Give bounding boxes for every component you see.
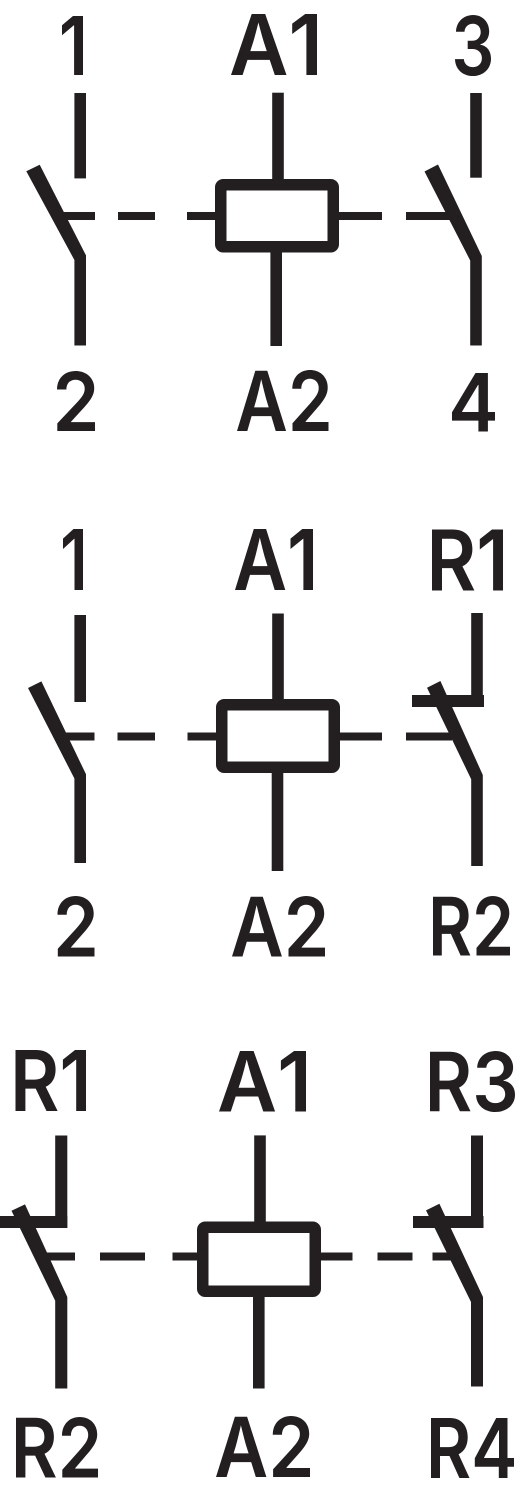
wire - contact R1-R2 actuator tick (diagram 3)	[42, 1253, 75, 1261]
label R2 (pin R2, diagram 2)	[433, 896, 510, 956]
wire - pin 3 top lead	[470, 93, 482, 178]
wire - dash segment 1 (diagram 1)	[118, 212, 155, 220]
label R1 (pin R1, diagram 2)	[432, 530, 503, 591]
wire - dash segment 3 (diagram 2)	[339, 733, 382, 741]
label 2 (pin 2, diagram 2)	[58, 896, 95, 957]
label A2 (coil terminal, diagram 3)	[216, 1416, 310, 1477]
NC contact blade R3-R4 with pin R4 lead (diagram 3 right)	[426, 1204, 483, 1387]
NC contact blade R1-R2 with pin R2 lead (diagram 3 left)	[12, 1204, 68, 1388]
wire - coil A1 top lead (diagram 1)	[272, 93, 284, 181]
NC contact seat bar R1-R2 (diagram 3)	[0, 1216, 67, 1228]
wire - contact 3-4 actuator tick	[406, 212, 453, 220]
wire - coil A1 top lead (diagram 3)	[254, 1135, 266, 1223]
NO contact blade 1-2 with pin 2 lead (diagram 2 left)	[28, 681, 86, 863]
label A1 (coil terminal, diagram 3)	[219, 1051, 306, 1112]
coil A1-A2 (diagram 1)	[221, 185, 334, 247]
wire - dash segment 3 (diagram 3)	[320, 1253, 353, 1261]
wire - dash segment 1 (diagram 3)	[100, 1253, 145, 1261]
label 3 (pin 3, diagram 1)	[455, 15, 491, 76]
coil A1-A2 (diagram 3)	[203, 1227, 316, 1291]
wire - dash segment 3 (diagram 1)	[338, 212, 382, 220]
wire - pin R1 top lead (diagram 3)	[55, 1136, 67, 1229]
label R4 (pin R4, diagram 3)	[431, 1418, 514, 1478]
label 2 (pin 2, diagram 1)	[57, 371, 95, 431]
label A1 (coil terminal, diagram 2)	[235, 529, 313, 590]
wire - contact R3-R4 actuator tick (diagram 3)	[433, 1253, 456, 1261]
wire - pin 1 top lead	[74, 93, 86, 178]
label 4 (pin 4, diagram 1)	[452, 373, 495, 432]
wire - pin R3 top lead (diagram 3)	[471, 1136, 483, 1229]
label R3 (pin R3, diagram 3)	[430, 1051, 515, 1112]
wire - dash segment 2 (diagram 3)	[173, 1253, 198, 1261]
wire - dash segment 2 (diagram 1)	[187, 212, 216, 220]
NC contact seat bar R1-R2 (diagram 2)	[412, 695, 484, 707]
NC contact seat bar R3-R4 (diagram 3)	[413, 1216, 484, 1228]
label R2 (pin R2, diagram 3)	[16, 1417, 98, 1478]
label A1 (coil terminal, diagram 1)	[231, 14, 317, 75]
label 1 (pin 1, diagram 1)	[62, 16, 83, 75]
label A2 (coil terminal, diagram 1)	[237, 370, 329, 431]
wire - coil A2 bottom lead (diagram 1)	[270, 251, 282, 346]
label 1 (pin 1, diagram 2)	[63, 529, 83, 590]
NO contact blade 3-4 with pin 4 lead (diagram 1 right)	[425, 165, 482, 346]
NC contact blade R1-R2 with pin R2 lead (diagram 2 right)	[427, 681, 483, 866]
wire - contact 1-2 actuator tick	[58, 212, 95, 220]
wire - pin R1 top lead (diagram 2)	[471, 613, 483, 707]
wire - coil A2 bottom lead (diagram 3)	[253, 1296, 265, 1389]
wire - pin 1 top lead (diagram 2)	[74, 615, 86, 702]
wire - coil A2 bottom lead (diagram 2)	[272, 771, 284, 871]
label R1 (pin R1, diagram 3)	[16, 1050, 87, 1111]
wire - contact 1-2 actuator tick (diagram 2)	[58, 733, 95, 741]
wire - coil A1 top lead (diagram 2)	[272, 614, 284, 702]
wire - dash segment 1 (diagram 2)	[118, 733, 156, 741]
wire - dash segment 2 (diagram 2)	[188, 733, 218, 741]
label A2 (coil terminal, diagram 2)	[232, 896, 325, 957]
wire - contact R1-R2 actuator tick (diagram 2)	[406, 733, 452, 741]
coil A1-A2 (diagram 2)	[222, 705, 335, 768]
NO contact blade 1-2 with pin 2 lead (diagram 1 left)	[26, 165, 86, 346]
wire - dash segment 4 (diagram 3)	[378, 1253, 413, 1261]
